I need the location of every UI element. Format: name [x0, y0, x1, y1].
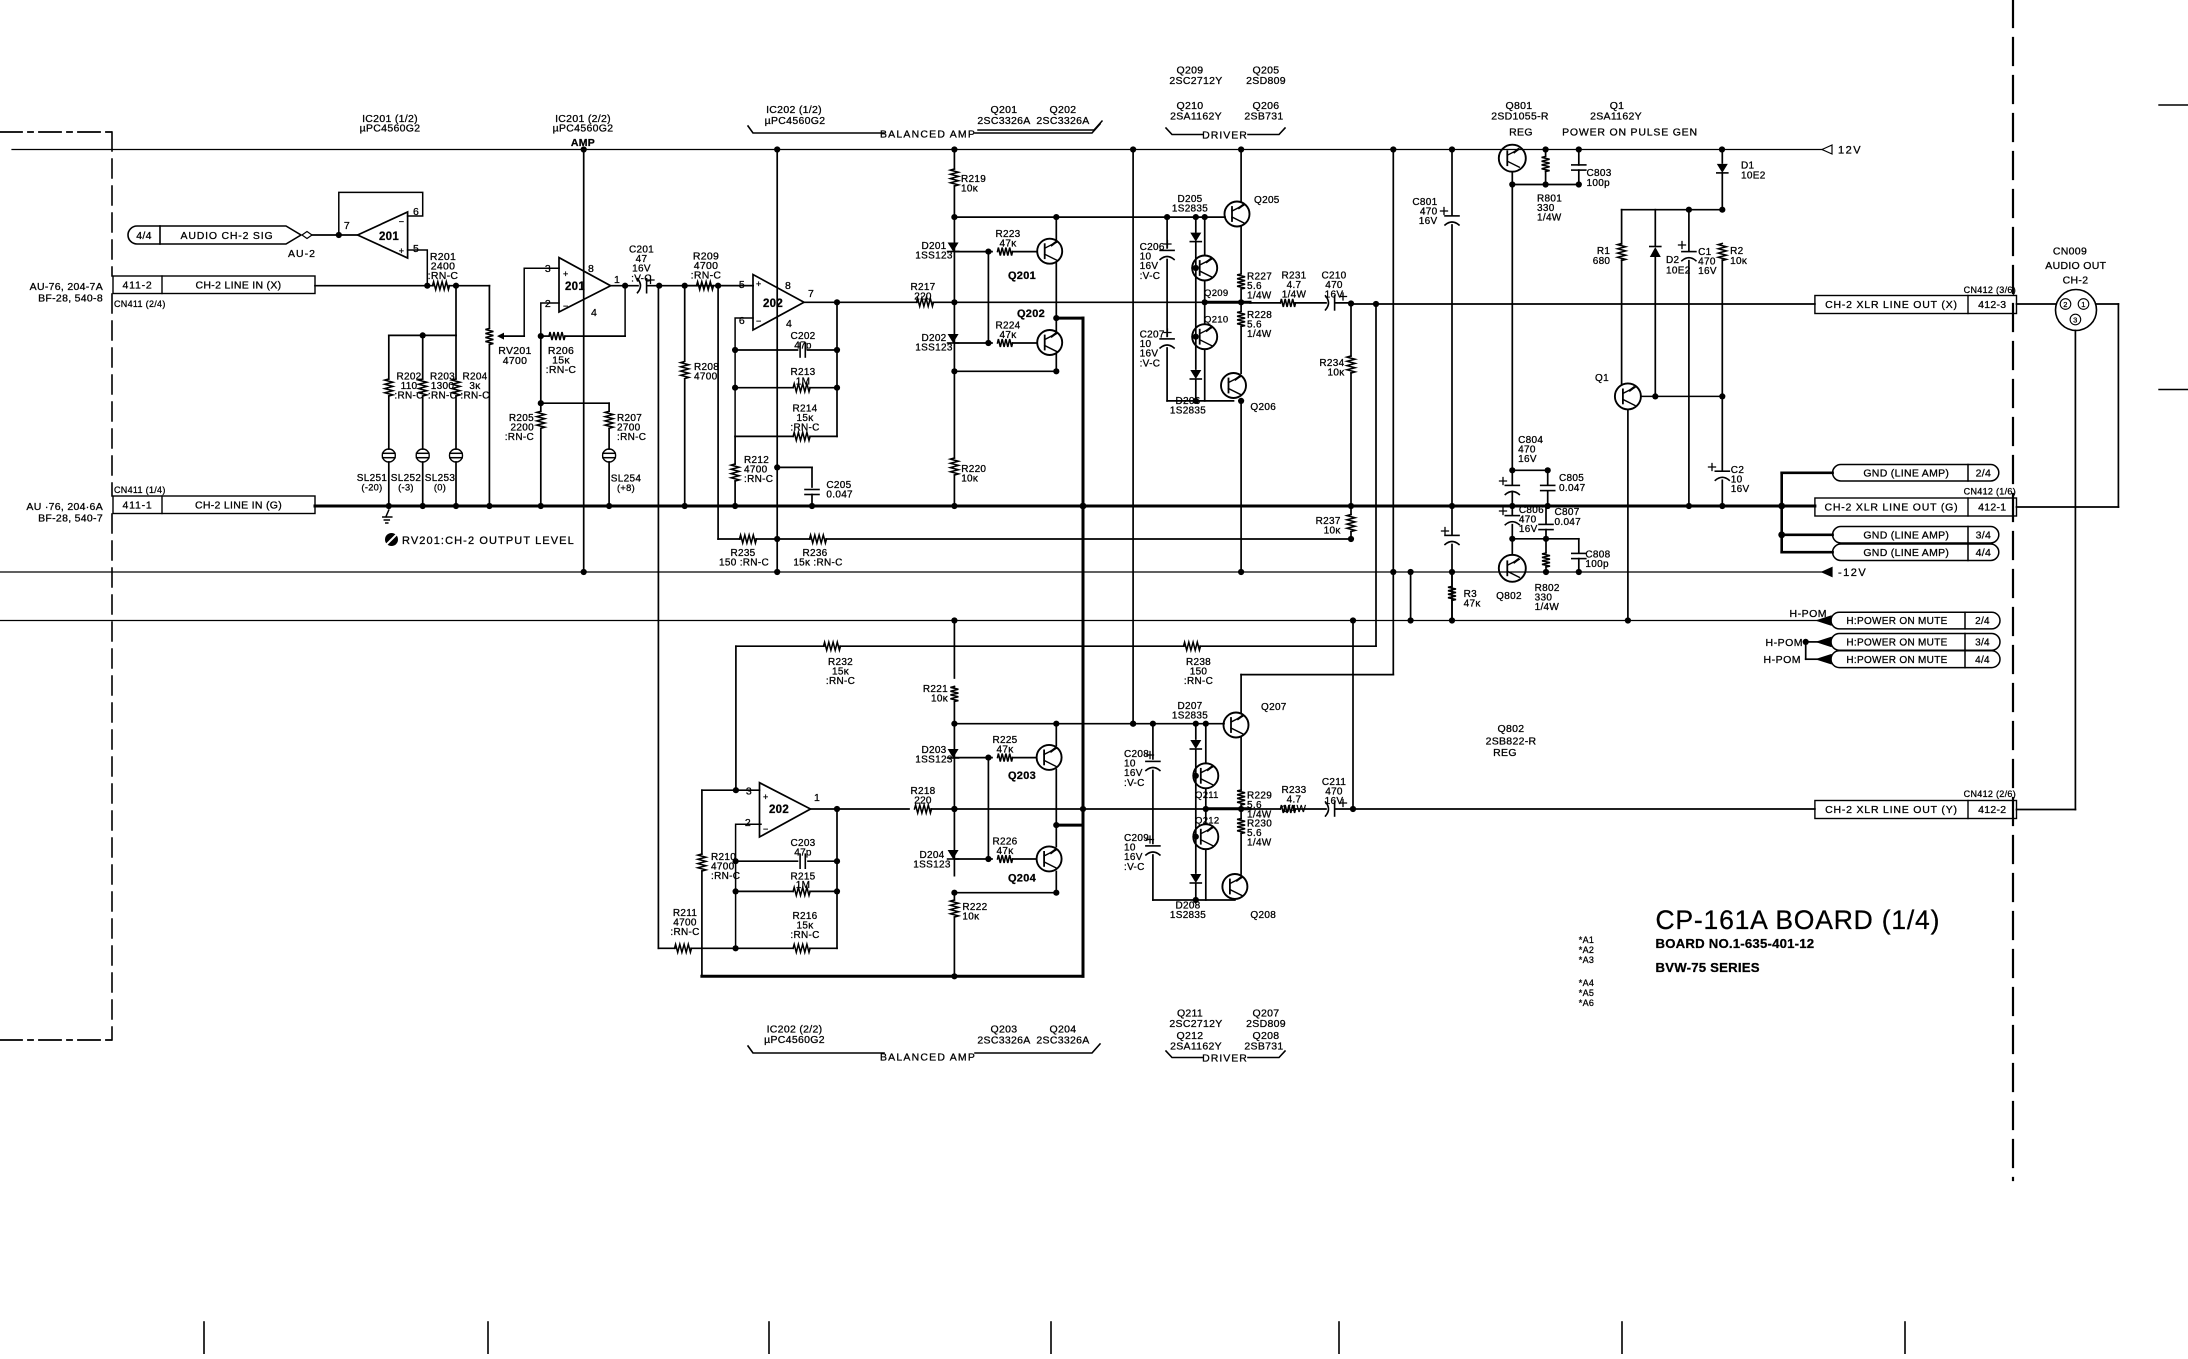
svg-text::RN-C: :RN-C — [691, 270, 722, 282]
svg-text:Q211: Q211 — [1195, 790, 1219, 801]
svg-text:10κ: 10κ — [1324, 526, 1342, 537]
svg-text:680: 680 — [1593, 256, 1611, 267]
svg-text:Q206: Q206 — [1250, 402, 1276, 413]
svg-text:1/4W: 1/4W — [1535, 602, 1560, 613]
svg-text:H:POWER ON MUTE: H:POWER ON MUTE — [1846, 638, 1947, 649]
svg-text:201: 201 — [565, 281, 585, 293]
svg-text:47p: 47p — [794, 848, 812, 859]
svg-text:8: 8 — [785, 280, 791, 292]
svg-text:H:POWER ON MUTE: H:POWER ON MUTE — [1846, 616, 1947, 627]
svg-text:GND (LINE AMP): GND (LINE AMP) — [1863, 467, 1949, 479]
svg-text:CP-161A BOARD (1/4): CP-161A BOARD (1/4) — [1656, 905, 1941, 935]
svg-text:2SD809: 2SD809 — [1246, 75, 1286, 87]
svg-text::RN-C: :RN-C — [617, 432, 646, 443]
svg-text:*A5: *A5 — [1579, 988, 1594, 998]
svg-text:202: 202 — [763, 298, 783, 310]
svg-text:1SS123: 1SS123 — [913, 860, 951, 871]
svg-text:−: − — [763, 824, 769, 834]
svg-text:+: + — [399, 246, 405, 256]
svg-text::V-C: :V-C — [1140, 271, 1161, 282]
svg-text:2/4: 2/4 — [1975, 616, 1990, 627]
svg-text:RV201:CH-2 OUTPUT LEVEL: RV201:CH-2 OUTPUT LEVEL — [402, 535, 575, 547]
svg-text:AUDIO OUT: AUDIO OUT — [2045, 260, 2106, 272]
svg-text:Q203: Q203 — [1008, 770, 1036, 782]
svg-text:412-3: 412-3 — [1978, 299, 2006, 311]
svg-text:*A4: *A4 — [1579, 978, 1594, 988]
svg-text:Q202: Q202 — [1017, 308, 1045, 320]
svg-text:BVW-75 SERIES: BVW-75 SERIES — [1656, 960, 1760, 975]
svg-text:4/4: 4/4 — [1975, 655, 1990, 666]
svg-text:CN009: CN009 — [2053, 246, 2087, 258]
svg-text::RN-C: :RN-C — [428, 270, 459, 282]
svg-text:47p: 47p — [794, 341, 812, 352]
svg-text:1S2835: 1S2835 — [1172, 204, 1208, 215]
svg-text::RN-C: :RN-C — [744, 474, 773, 485]
svg-text:+: + — [763, 792, 769, 802]
svg-text:CN412 (1/6): CN412 (1/6) — [1964, 487, 2016, 497]
svg-text:220: 220 — [914, 292, 932, 303]
svg-text::RN-C: :RN-C — [790, 930, 819, 941]
svg-text:µPC4560G2: µPC4560G2 — [764, 1034, 825, 1046]
svg-text:REG: REG — [1493, 747, 1517, 759]
svg-text:10κ: 10κ — [961, 184, 979, 195]
svg-text:2SA1162Y: 2SA1162Y — [1170, 111, 1222, 123]
svg-text:1: 1 — [814, 792, 820, 804]
svg-text:100p: 100p — [1585, 559, 1609, 570]
svg-text:AU ·76, 204·6A: AU ·76, 204·6A — [26, 501, 103, 513]
svg-text:2: 2 — [745, 817, 751, 829]
svg-text::RN-C: :RN-C — [428, 391, 457, 402]
svg-text:CH-2 LINE IN (X): CH-2 LINE IN (X) — [196, 279, 282, 291]
svg-text:1SS123: 1SS123 — [915, 343, 953, 354]
svg-text:10κ: 10κ — [931, 694, 949, 705]
svg-text:1S2835: 1S2835 — [1170, 910, 1206, 921]
svg-text:4700: 4700 — [694, 372, 718, 383]
svg-text:Q212: Q212 — [1195, 816, 1219, 827]
svg-text:2SA1162Y: 2SA1162Y — [1590, 111, 1642, 123]
svg-text:Q208: Q208 — [1250, 910, 1276, 921]
svg-text:1S2835: 1S2835 — [1170, 406, 1206, 417]
svg-text:CH-2: CH-2 — [2063, 275, 2089, 287]
svg-text:CH-2 LINE IN (G): CH-2 LINE IN (G) — [195, 499, 282, 511]
svg-text:1SS123: 1SS123 — [915, 755, 953, 766]
svg-text:*A2: *A2 — [1579, 945, 1594, 955]
svg-text::RN-C: :RN-C — [1184, 676, 1213, 687]
svg-text:220: 220 — [914, 796, 932, 807]
svg-text:16V: 16V — [1698, 266, 1717, 277]
svg-text:+: + — [563, 269, 569, 279]
svg-text:*A1: *A1 — [1579, 935, 1594, 945]
svg-text:100p: 100p — [1587, 178, 1611, 189]
svg-text:3/4: 3/4 — [1976, 529, 1992, 541]
svg-text::V-C: :V-C — [1124, 862, 1145, 873]
svg-text:2SB731: 2SB731 — [1244, 1041, 1283, 1053]
svg-text:10E2: 10E2 — [1741, 171, 1766, 182]
svg-text:−: − — [399, 217, 405, 227]
svg-text::RN-C: :RN-C — [670, 927, 699, 938]
svg-text:4/4: 4/4 — [136, 230, 152, 242]
svg-text:CN411 (2/4): CN411 (2/4) — [114, 299, 166, 309]
svg-text:201: 201 — [379, 231, 399, 243]
svg-text:3: 3 — [545, 263, 551, 275]
svg-text:411-2: 411-2 — [122, 279, 152, 291]
svg-text:2SC3326A: 2SC3326A — [977, 1035, 1030, 1047]
svg-text:3/4: 3/4 — [1975, 638, 1990, 649]
svg-text:7: 7 — [344, 220, 350, 232]
svg-text:D2: D2 — [1666, 255, 1680, 266]
svg-text:47κ: 47κ — [996, 745, 1014, 756]
svg-text:2SC2712Y: 2SC2712Y — [1169, 75, 1222, 87]
svg-text:15κ :RN-C: 15κ :RN-C — [793, 558, 842, 569]
svg-text:2SD809: 2SD809 — [1246, 1018, 1286, 1030]
svg-text:AU-2: AU-2 — [288, 248, 316, 260]
svg-text:Q210: Q210 — [1204, 315, 1228, 326]
svg-text:2SB822-R: 2SB822-R — [1486, 736, 1537, 748]
svg-text:0.047: 0.047 — [1559, 483, 1586, 494]
svg-text:16V: 16V — [1325, 796, 1344, 807]
svg-text:Q204: Q204 — [1008, 873, 1037, 885]
svg-text:1S2835: 1S2835 — [1172, 711, 1208, 722]
svg-text:BALANCED AMP: BALANCED AMP — [880, 1052, 976, 1064]
svg-text:1M: 1M — [796, 377, 811, 388]
svg-text:−: − — [563, 301, 569, 311]
svg-text:BOARD NO.1-635-401-12: BOARD NO.1-635-401-12 — [1656, 936, 1815, 951]
svg-text:4: 4 — [591, 307, 597, 319]
svg-text:CH-2 XLR LINE OUT (Y): CH-2 XLR LINE OUT (Y) — [1825, 804, 1958, 816]
svg-text:Q201: Q201 — [1008, 270, 1036, 282]
svg-text:2: 2 — [2063, 300, 2067, 309]
svg-text:POWER ON PULSE GEN: POWER ON PULSE GEN — [1562, 127, 1698, 139]
svg-text::V-C: :V-C — [631, 273, 652, 284]
svg-text:0.047: 0.047 — [1555, 517, 1582, 528]
svg-text:4700: 4700 — [503, 355, 528, 367]
svg-text:H-POM: H-POM — [1764, 654, 1802, 666]
svg-text:(-3): (-3) — [398, 483, 414, 493]
svg-text:16V: 16V — [1519, 524, 1538, 535]
svg-text:8: 8 — [588, 263, 594, 275]
svg-text:µPC4560G2: µPC4560G2 — [765, 115, 826, 127]
svg-text::RN-C: :RN-C — [394, 391, 423, 402]
svg-text:H:POWER ON MUTE: H:POWER ON MUTE — [1846, 655, 1947, 666]
svg-text:1/4W: 1/4W — [1537, 213, 1562, 224]
svg-text:16V: 16V — [1325, 290, 1344, 301]
svg-text:2/4: 2/4 — [1976, 467, 1992, 479]
svg-text::RN-C: :RN-C — [826, 676, 855, 687]
svg-text:*A3: *A3 — [1579, 955, 1594, 965]
svg-text:1/4W: 1/4W — [1247, 838, 1272, 849]
svg-text:−: − — [756, 316, 762, 326]
svg-text:0.047: 0.047 — [826, 490, 853, 501]
svg-text:CH-2 XLR LINE OUT (G): CH-2 XLR LINE OUT (G) — [1825, 502, 1959, 514]
svg-text::RN-C: :RN-C — [790, 423, 819, 434]
svg-text:µPC4560G2: µPC4560G2 — [553, 123, 614, 135]
svg-text::RN-C: :RN-C — [460, 391, 489, 402]
svg-text:47κ: 47κ — [999, 330, 1017, 341]
svg-text:Q209: Q209 — [1204, 288, 1228, 299]
svg-text:2SA1162Y: 2SA1162Y — [1170, 1041, 1222, 1053]
svg-text:AU-76, 204-7A: AU-76, 204-7A — [30, 281, 103, 293]
svg-text:BF-28, 540-7: BF-28, 540-7 — [38, 513, 103, 525]
svg-text:CN411 (1/4): CN411 (1/4) — [114, 485, 166, 495]
svg-text:Q1: Q1 — [1595, 373, 1609, 384]
svg-text:1M: 1M — [796, 880, 811, 891]
svg-text:47κ: 47κ — [999, 239, 1017, 250]
svg-text:16V: 16V — [1518, 454, 1537, 465]
svg-text:H-POM: H-POM — [1790, 608, 1828, 620]
svg-text:*A6: *A6 — [1579, 998, 1594, 1008]
svg-text:Q802: Q802 — [1496, 591, 1522, 602]
svg-text:411-1: 411-1 — [122, 499, 152, 511]
svg-text:47κ: 47κ — [996, 846, 1014, 857]
svg-text:16V: 16V — [1419, 216, 1438, 227]
svg-text:2SC3326A: 2SC3326A — [1036, 115, 1089, 127]
svg-text:3: 3 — [746, 786, 752, 798]
svg-text:µPC4560G2: µPC4560G2 — [360, 123, 421, 135]
svg-text:CN412 (3/6): CN412 (3/6) — [1964, 285, 2016, 295]
svg-text:2: 2 — [545, 298, 551, 310]
svg-text:412-2: 412-2 — [1978, 804, 2006, 816]
svg-text:CN412 (2/6): CN412 (2/6) — [1964, 789, 2016, 799]
svg-text:(-20): (-20) — [361, 483, 382, 493]
svg-text:16V: 16V — [1731, 484, 1750, 495]
svg-text:1/4W: 1/4W — [1282, 290, 1307, 301]
svg-text:4/4: 4/4 — [1976, 547, 1992, 559]
svg-text:-12V: -12V — [1838, 567, 1867, 579]
svg-text:(+8): (+8) — [617, 483, 635, 493]
svg-text:1: 1 — [2081, 300, 2085, 309]
svg-text:1/4W: 1/4W — [1247, 291, 1272, 302]
svg-text:CH-2 XLR LINE OUT (X): CH-2 XLR LINE OUT (X) — [1825, 299, 1958, 311]
svg-text:BALANCED AMP: BALANCED AMP — [880, 129, 976, 141]
svg-text:1: 1 — [614, 274, 620, 286]
svg-text:7: 7 — [808, 288, 814, 300]
svg-text:Q802: Q802 — [1498, 723, 1525, 735]
svg-text:REG: REG — [1509, 127, 1533, 139]
svg-text:2SC3326A: 2SC3326A — [977, 115, 1030, 127]
svg-text:2SB731: 2SB731 — [1244, 111, 1283, 123]
svg-text:10κ: 10κ — [962, 912, 980, 923]
svg-text:47κ: 47κ — [1464, 599, 1482, 610]
svg-text:H-POM: H-POM — [1766, 637, 1804, 649]
svg-text:2SD1055-R: 2SD1055-R — [1491, 111, 1549, 123]
svg-text::V-C: :V-C — [1124, 778, 1145, 789]
svg-text:4: 4 — [786, 318, 792, 330]
svg-text:5: 5 — [413, 243, 419, 255]
svg-text:DRIVER: DRIVER — [1202, 130, 1248, 142]
svg-text:GND (LINE AMP): GND (LINE AMP) — [1863, 529, 1949, 541]
svg-text:1SS123: 1SS123 — [915, 251, 953, 262]
svg-text:6: 6 — [739, 315, 745, 327]
svg-text:1/4W: 1/4W — [1282, 804, 1307, 815]
svg-text:DRIVER: DRIVER — [1202, 1053, 1248, 1065]
svg-text:2SC2712Y: 2SC2712Y — [1169, 1018, 1222, 1030]
svg-text:202: 202 — [769, 804, 789, 816]
svg-text:150 :RN-C: 150 :RN-C — [719, 558, 769, 569]
svg-text:AUDIO CH-2 SIG: AUDIO CH-2 SIG — [181, 230, 274, 242]
svg-text:5: 5 — [739, 279, 745, 291]
svg-text:1/4W: 1/4W — [1247, 329, 1272, 340]
svg-text::RN-C: :RN-C — [505, 432, 534, 443]
svg-text:3: 3 — [2073, 315, 2077, 324]
svg-text:10κ: 10κ — [1327, 368, 1345, 379]
svg-text::V-C: :V-C — [1140, 358, 1161, 369]
svg-text:BF-28, 540-8: BF-28, 540-8 — [38, 293, 103, 305]
svg-text:10E2: 10E2 — [1666, 266, 1691, 277]
svg-text:Q205: Q205 — [1254, 195, 1280, 206]
svg-text:2SC3326A: 2SC3326A — [1036, 1035, 1089, 1047]
svg-text:412-1: 412-1 — [1978, 502, 2006, 514]
svg-text:(0): (0) — [434, 483, 446, 493]
svg-text:10κ: 10κ — [961, 474, 979, 485]
svg-text:10κ: 10κ — [1730, 256, 1748, 267]
svg-text:12V: 12V — [1838, 145, 1862, 157]
svg-text:+: + — [756, 279, 762, 289]
svg-text::RN-C: :RN-C — [546, 364, 577, 376]
svg-text:Q207: Q207 — [1261, 702, 1287, 713]
svg-text:GND (LINE AMP): GND (LINE AMP) — [1863, 547, 1949, 559]
